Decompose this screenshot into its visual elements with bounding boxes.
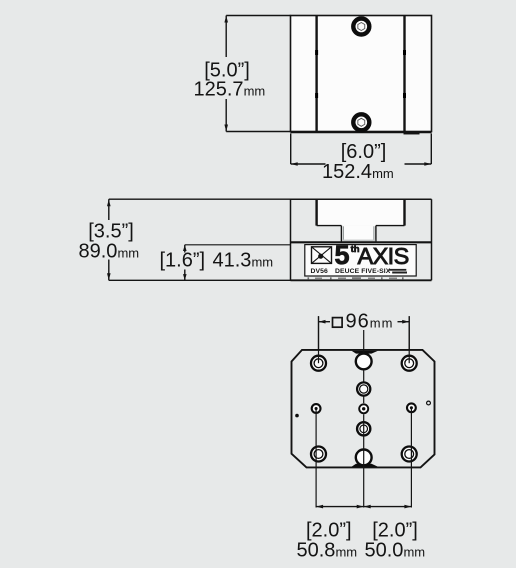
right gray shadow line	[373, 226, 375, 241]
label plate	[305, 245, 416, 276]
corner hole bottom-left	[311, 447, 326, 462]
fine print row under plate	[308, 277, 404, 279]
screw hole top (socket head)	[353, 19, 369, 35]
svg-text:AXIS: AXIS	[358, 243, 409, 269]
svg-text:[1.6”]: [1.6”]	[160, 250, 206, 272]
left step horizontal	[317, 225, 342, 227]
extension line from top-left hole	[318, 316, 320, 363]
bottom edge step segment near right jaw	[404, 133, 420, 135]
right small-hole extension line	[410, 408, 412, 508]
dimension square-96mm (top of bottom view)	[318, 316, 320, 363]
svg-text:[6.0”]: [6.0”]	[341, 141, 387, 163]
extension line from top-right hole	[408, 316, 410, 363]
svg-text:[2.0”]: [2.0”]	[306, 520, 352, 542]
jaw tick marks	[315, 50, 318, 55]
right step vertical	[375, 226, 377, 243]
plate tiny web text	[389, 269, 407, 271]
left step vertical	[340, 226, 342, 243]
center extension line upper segment	[363, 330, 365, 353]
right step horizontal	[376, 225, 405, 227]
left small-hole extension line	[315, 409, 317, 508]
screw hole bottom (socket head)	[353, 114, 369, 130]
bottom-center bore	[356, 450, 372, 466]
top-center bore	[356, 354, 372, 370]
svg-text:DEUCE FIVE-SIX: DEUCE FIVE-SIX	[335, 268, 391, 275]
square symbol	[333, 318, 343, 328]
left gray shadow line	[342, 226, 344, 241]
top view outline	[291, 16, 432, 132]
dimension [5.0"] 125.7mm (vertical, left of top view)	[226, 15, 290, 17]
logo square	[312, 247, 332, 264]
center hole middle (small)	[359, 404, 368, 413]
corner hole bottom-right	[402, 447, 417, 462]
top-center bore wings	[352, 351, 379, 354]
left jaw face line (thick)	[315, 16, 317, 132]
center extension line between bores	[363, 371, 365, 382]
center hole lower	[357, 422, 370, 435]
small hole mid-right	[407, 403, 416, 412]
dimension [2.0"] 50.8mm / [2.0"] 50.0mm (bottom)	[316, 506, 364, 508]
jaw gap white pocket	[318, 200, 404, 226]
tiny pin hole right	[427, 401, 431, 405]
right jaw face line (thick)	[403, 16, 405, 132]
front view left edge	[290, 199, 292, 280]
center hole upper	[357, 382, 370, 395]
top view bottom edge (thicker)	[291, 131, 432, 133]
corner hole top-right	[402, 356, 417, 371]
dimension [3.5"] 89.0mm (vertical, left of front view)	[109, 198, 291, 200]
left jaw face (thick)	[315, 199, 317, 225]
svg-text:5: 5	[335, 240, 350, 270]
body top edge (thick)	[291, 241, 432, 243]
dimension [1.6"] 41.3mm (vertical, left of body)	[185, 244, 291, 246]
corner hole top-left	[311, 356, 326, 371]
small hole mid-left	[312, 404, 321, 413]
svg-text:DV56: DV56	[311, 268, 329, 275]
svg-text:[2.0”]: [2.0”]	[372, 520, 418, 542]
front view right edge	[431, 199, 433, 280]
stem bottom shadow	[342, 240, 375, 242]
bottom-center bore wings	[352, 464, 379, 467]
right jaw face (thick)	[403, 199, 405, 225]
tiny pin hole left	[295, 414, 299, 418]
jaw band top edge	[291, 198, 432, 200]
body bottom edge	[291, 279, 432, 281]
bottom plate outline	[292, 350, 435, 468]
svg-text:[3.5”]: [3.5”]	[88, 221, 134, 243]
dimension [6.0"] 152.4mm (horizontal, below top view)	[290, 134, 292, 165]
top view body fill	[291, 16, 432, 132]
